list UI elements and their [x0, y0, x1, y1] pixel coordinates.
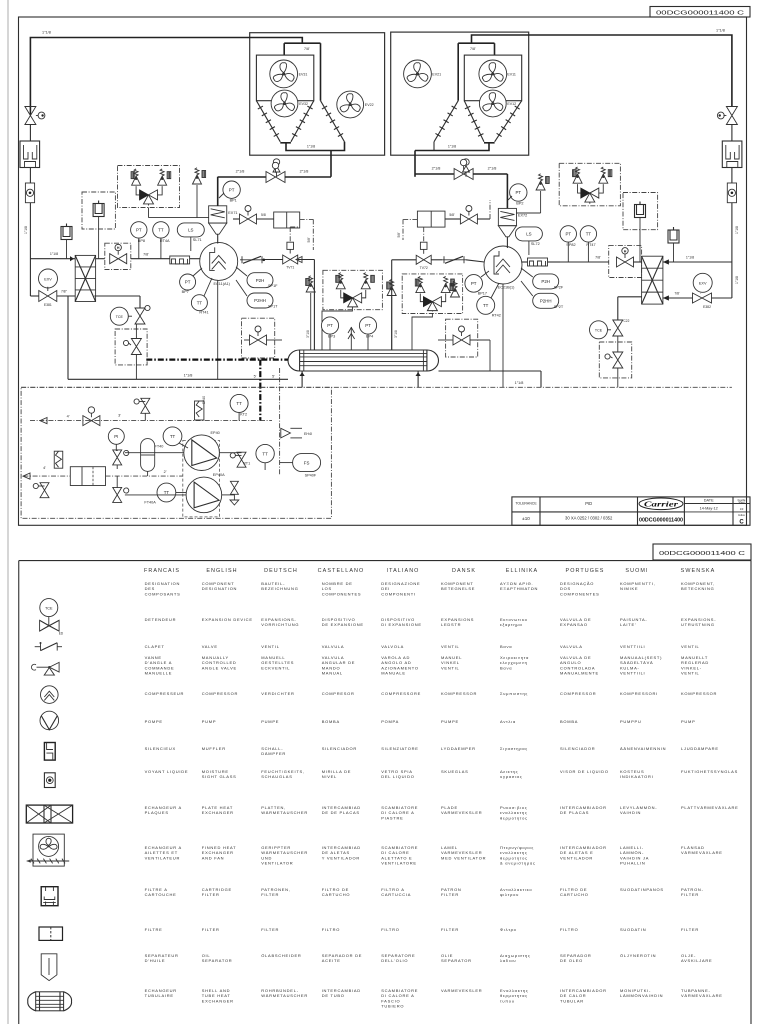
svg-text:SEPARATOR: SEPARATOR	[441, 958, 472, 963]
gauge PI	[108, 428, 124, 444]
icon: plate heat exchanger	[26, 805, 72, 823]
muffler left riser	[20, 141, 40, 168]
svg-text:POMPE: POMPE	[145, 719, 163, 724]
fan EV22	[337, 91, 364, 118]
svg-text:LJUDDÄMPARE: LJUDDÄMPARE	[681, 746, 719, 751]
svg-text:PORTUGES: PORTUGES	[566, 568, 605, 574]
svg-text:BP4: BP4	[366, 335, 373, 339]
svg-text:EV31: EV31	[299, 73, 308, 77]
svg-text:VENTILADOR: VENTILADOR	[560, 855, 593, 860]
PT BP2	[510, 184, 527, 201]
svg-text:H: H	[117, 246, 120, 250]
svg-text:KOMPRESSORI: KOMPRESSORI	[620, 691, 658, 696]
fan EV12	[479, 90, 506, 117]
main drawing frame	[19, 17, 747, 525]
muffler B	[635, 205, 646, 218]
hydronic control valve	[83, 416, 100, 426]
svg-text:COMPRESOR: COMPRESOR	[322, 691, 355, 696]
pipe TCE B feed	[618, 296, 642, 298]
svg-text:DESIGNATION: DESIGNATION	[202, 586, 238, 591]
svg-text:FILTRO: FILTRO	[322, 927, 340, 932]
sight glass right riser	[727, 183, 736, 203]
EXV A circle	[39, 269, 58, 288]
svg-text:EXV: EXV	[699, 282, 707, 286]
TT KT2	[230, 394, 248, 412]
svg-text:1''1/8: 1''1/8	[24, 226, 28, 234]
oval P2HH SP1T	[247, 293, 273, 308]
svg-text:FILTER: FILTER	[441, 927, 459, 932]
svg-text:VALVULA: VALVULA	[322, 644, 345, 649]
svg-text:ÖLJYNEROTIN: ÖLJYNEROTIN	[620, 953, 656, 958]
pipe: comp B drain	[502, 284, 504, 387]
svg-text:Carrier: Carrier	[644, 500, 678, 508]
svg-text:DATE: DATE	[704, 499, 714, 503]
svg-text:4': 4'	[43, 466, 46, 470]
pipe right riser 3	[731, 203, 733, 298]
svg-text:TUBIERO: TUBIERO	[381, 1004, 404, 1009]
LS SL72 oval	[515, 227, 542, 241]
pipe: bottom line long	[21, 386, 732, 388]
suction filter A	[170, 256, 190, 264]
svg-text:CLAPET: CLAPET	[145, 644, 165, 649]
svg-text:LÄMMÖNVAIHDIN: LÄMMÖNVAIHDIN	[620, 993, 663, 998]
TCE B box valve	[613, 352, 623, 368]
TCE B valve	[613, 320, 623, 336]
pipe: relief header A	[148, 208, 150, 218]
hydronic vent valve	[141, 398, 150, 413]
svg-text:BOMBA: BOMBA	[560, 719, 578, 724]
injection sight glass A	[287, 242, 294, 249]
svg-text:VENTILATORE: VENTILATORE	[381, 861, 417, 866]
oval P2HH SP2T	[533, 293, 559, 308]
svg-text:WÄRMETAUSCHER: WÄRMETAUSCHER	[261, 993, 308, 998]
PT BP1	[223, 181, 240, 198]
svg-text:5': 5'	[254, 375, 257, 379]
pipe: liquid line B	[445, 218, 460, 220]
pipe: cond A outlet	[286, 142, 345, 151]
coil A left leg	[256, 101, 280, 142]
svg-text:5': 5'	[272, 375, 275, 379]
pipe: cond A gas riser	[330, 151, 332, 177]
muffler A2	[61, 227, 72, 240]
svg-text:NIVEL: NIVEL	[322, 774, 337, 779]
pipe: injection B dashdot	[403, 218, 417, 220]
svg-text:RT1: RT1	[243, 462, 250, 466]
svg-text:VOYANT LIQUIDE: VOYANT LIQUIDE	[145, 769, 189, 774]
water pipe supply	[146, 359, 288, 361]
svg-text:CARTOUCHE: CARTOUCHE	[145, 892, 177, 897]
pipe to economizer A top	[30, 258, 75, 260]
TT RT4A	[153, 222, 169, 238]
svg-text:ITALIANO: ITALIANO	[387, 568, 420, 574]
svg-text:VENTTIILI: VENTTIILI	[620, 671, 645, 676]
svg-text:00DCG000011400 C: 00DCG000011400 C	[659, 551, 745, 557]
svg-text:PUMP: PUMP	[202, 719, 217, 724]
svg-text:MANUAL: MANUAL	[322, 671, 343, 676]
filter drier A	[274, 212, 300, 228]
svg-text:SKUEGLAS: SKUEGLAS	[441, 769, 469, 774]
muffler B standalone	[668, 230, 679, 243]
svg-text:1''1/8: 1''1/8	[448, 145, 456, 149]
icon: pump	[40, 711, 59, 730]
pipe: injection A dashdot	[300, 218, 314, 220]
svg-text:PID: PID	[585, 501, 592, 506]
carrier logo	[639, 498, 683, 510]
svg-text:COMPRESSOR: COMPRESSOR	[202, 691, 238, 696]
hand valve B	[617, 257, 634, 267]
svg-text:LEDSTR: LEDSTR	[441, 622, 461, 627]
PT BP4	[359, 317, 376, 334]
coil A right leg	[291, 101, 314, 142]
svg-text:PLAQUES: PLAQUES	[145, 810, 169, 815]
pipe left riser 2	[29, 168, 31, 184]
PT BP17	[465, 275, 483, 293]
condenser box B frame	[391, 32, 529, 155]
TT RT42	[477, 296, 495, 314]
svg-text:EV32: EV32	[299, 102, 308, 106]
svg-text:ANGLE VALVE: ANGLE VALVE	[202, 665, 237, 670]
water filter	[70, 467, 105, 486]
hydronic inlet arrow	[40, 418, 47, 424]
sight glass left riser	[25, 183, 34, 203]
svg-text:SEPARATOR: SEPARATOR	[202, 958, 233, 963]
svg-text:30 XA 0252 / 0302 / 0352: 30 XA 0252 / 0302 / 0352	[565, 516, 613, 521]
svg-text:KOMPRESSOR: KOMPRESSOR	[441, 691, 477, 696]
svg-text:1''1/8: 1''1/8	[184, 374, 193, 378]
svg-text:DE EXPANSIONE: DE EXPANSIONE	[322, 622, 364, 627]
flow flag EH4I	[281, 428, 291, 438]
compressor EC21B1	[484, 246, 522, 284]
pipe TCE A	[94, 295, 140, 297]
svg-text:PT: PT	[365, 323, 371, 328]
icon: finned heat exchanger and fan	[33, 834, 64, 866]
coil bank A rect	[256, 55, 313, 101]
svg-text:Indice: Indice	[738, 513, 745, 517]
relief valve B standalone	[536, 181, 545, 190]
service valve left riser	[25, 107, 36, 125]
svg-text:Συμπιεστης: Συμπιεστης	[500, 691, 528, 696]
svg-text:BP7: BP7	[182, 290, 189, 294]
svg-text:E382: E382	[703, 305, 711, 309]
svg-text:Βανα: Βανα	[500, 665, 512, 670]
svg-text:COMPRESSORE: COMPRESSORE	[381, 691, 421, 696]
svg-text:BETECKNING: BETECKNING	[681, 586, 715, 591]
TT FT40A	[157, 483, 176, 502]
coil B left leg	[464, 101, 484, 142]
svg-text:LS: LS	[188, 228, 193, 233]
svg-text:5/8': 5/8'	[449, 213, 455, 217]
TCE A valve	[135, 308, 145, 324]
svg-text:εξαρτημα: εξαρτημα	[500, 622, 522, 627]
svg-text:TOLERANCE: TOLERANCE	[515, 502, 537, 506]
check valve comp B	[442, 259, 466, 261]
pipe: comp A drain	[217, 280, 219, 379]
svg-text:5/8': 5/8'	[397, 232, 401, 237]
svg-text:TT: TT	[170, 434, 176, 439]
svg-text:P2HH: P2HH	[540, 299, 552, 304]
svg-text:KT2: KT2	[240, 412, 247, 416]
svg-text:TV71: TV71	[286, 266, 294, 270]
svg-text:SP2T: SP2T	[554, 305, 564, 309]
injection sight glass B	[420, 242, 427, 249]
discharge valve B	[415, 173, 454, 175]
svg-text:RT4A: RT4A	[160, 239, 170, 243]
svg-text:SP1F: SP1F	[268, 284, 278, 288]
svg-text:EC21B(1): EC21B(1)	[498, 286, 515, 290]
filter drier B	[417, 211, 445, 227]
svg-text:PT: PT	[565, 232, 571, 237]
liquid valve B	[460, 214, 477, 224]
water pipe return	[279, 368, 281, 475]
svg-text:VÄRMEVÄXLARE: VÄRMEVÄXLARE	[681, 850, 723, 855]
svg-text:VAIHDIN: VAIHDIN	[620, 810, 641, 815]
svg-text:POMPA: POMPA	[381, 719, 399, 724]
svg-text:SL72: SL72	[531, 242, 540, 246]
svg-text:BOMBA: BOMBA	[322, 719, 340, 724]
svg-text:VALVULA: VALVULA	[560, 644, 583, 649]
svg-text:SCHAUGLAS: SCHAUGLAS	[261, 774, 292, 779]
svg-text:VENTIL: VENTIL	[681, 671, 700, 676]
hand valve A	[110, 254, 127, 264]
TT RT41	[191, 295, 207, 311]
svg-text:ELLINIKA: ELLINIKA	[506, 568, 538, 574]
svg-text:PUMP: PUMP	[681, 719, 696, 724]
svg-text:2': 2'	[164, 470, 167, 474]
coil B right leg	[495, 101, 522, 142]
EXV B circle	[693, 273, 712, 292]
svg-text:EXCHANGER: EXCHANGER	[202, 810, 234, 815]
svg-text:EX72: EX72	[518, 213, 527, 217]
icon: cartridge filter	[41, 887, 58, 906]
svg-text:3''1/8: 3''1/8	[394, 330, 398, 338]
svg-text:υγρασιας: υγρασιας	[500, 774, 522, 779]
svg-text:AND FAN: AND FAN	[202, 855, 225, 860]
svg-text:7/8': 7/8'	[595, 256, 601, 260]
pipe: bottom line A	[68, 378, 288, 380]
svg-text:SILENCIADOR: SILENCIADOR	[322, 746, 357, 751]
svg-text:FRANCAIS: FRANCAIS	[144, 568, 180, 574]
svg-text:DELL'OLIO: DELL'OLIO	[381, 958, 408, 963]
svg-text:INDIKAATORI: INDIKAATORI	[620, 774, 653, 779]
svg-text:VÄRMEVÄXLARE: VÄRMEVÄXLARE	[681, 993, 723, 998]
pipe: separator A riser	[217, 177, 219, 206]
coil B header bottom	[484, 142, 495, 144]
svg-text:EH4I: EH4I	[304, 432, 312, 436]
svg-text:LS: LS	[526, 232, 531, 237]
svg-text:H: H	[624, 249, 627, 253]
evaporator shell	[300, 350, 427, 371]
svg-text:4': 4'	[67, 415, 70, 419]
pipe: economizer B to compressor	[560, 261, 609, 263]
svg-text:NIMIKE: NIMIKE	[620, 586, 638, 591]
economizer plate HX A	[75, 255, 95, 301]
hydronic valve v2	[113, 487, 122, 502]
svg-text:1''1/8: 1''1/8	[716, 29, 725, 33]
svg-text:COMPRESSEUR: COMPRESSEUR	[145, 691, 185, 696]
svg-text:VENTILATEUR: VENTILATEUR	[145, 855, 181, 860]
svg-text:VENTTIILI: VENTTIILI	[620, 644, 645, 649]
relief valve A standalone	[193, 175, 202, 184]
svg-text:DANSK: DANSK	[452, 568, 476, 574]
svg-text:Y VENTILADOR: Y VENTILADOR	[322, 855, 360, 860]
svg-text:WÄRMETAUSCHER: WÄRMETAUSCHER	[261, 810, 308, 815]
TT FT40	[163, 427, 182, 446]
svg-text:TT: TT	[586, 232, 592, 237]
svg-text:MED VENTILATOR: MED VENTILATOR	[441, 855, 486, 860]
svg-text:7/8': 7/8'	[304, 47, 310, 51]
svg-text:VENTILATOR: VENTILATOR	[261, 861, 293, 866]
expansion tank	[141, 439, 155, 472]
svg-text:ÖLABSCHEIDER: ÖLABSCHEIDER	[261, 953, 301, 958]
svg-text:τυπου: τυπου	[500, 998, 515, 1003]
svg-text:PT: PT	[471, 281, 477, 286]
svg-text:EP40: EP40	[211, 431, 220, 435]
icon: check valve	[35, 646, 41, 648]
svg-text:BP17: BP17	[478, 291, 487, 295]
svg-text:COMPRESSOR: COMPRESSOR	[560, 691, 596, 696]
fan EV31	[270, 60, 298, 88]
svg-text:SP2F: SP2F	[554, 285, 564, 289]
muffler assembly A dashed box	[82, 192, 115, 229]
icon: sight glass	[44, 773, 55, 788]
svg-text:SWENSKA: SWENSKA	[681, 568, 716, 574]
hydronic main line	[23, 475, 70, 477]
pipe relief B down	[412, 313, 432, 350]
pipe: riser B bottom	[731, 386, 733, 388]
pipe: condenser A inlet header	[284, 42, 320, 44]
svg-text:DÄMPFER: DÄMPFER	[261, 751, 286, 756]
svg-text:KOMPRESSOR: KOMPRESSOR	[681, 691, 717, 696]
svg-text:VARMEVEKSLER: VARMEVEKSLER	[441, 810, 482, 815]
svg-text:2''1/8: 2''1/8	[432, 167, 441, 171]
svg-text:SUOMI: SUOMI	[625, 568, 648, 574]
svg-text:PI: PI	[114, 434, 118, 439]
svg-text:TCE: TCE	[45, 607, 53, 611]
compressor EC11A1	[200, 242, 238, 280]
svg-text:AVSKILJARE: AVSKILJARE	[681, 958, 712, 963]
svg-text:TV72: TV72	[420, 266, 428, 270]
svg-text:BP3: BP3	[328, 335, 335, 339]
drawing number box above table	[653, 544, 751, 560]
svg-text:DETENDEUR: DETENDEUR	[145, 617, 177, 622]
legend table frame	[19, 560, 751, 562]
check valve comp A	[240, 259, 264, 261]
check valve drain	[230, 481, 238, 494]
svg-text:FILTER: FILTER	[681, 927, 699, 932]
pipe: liquid line A	[233, 218, 240, 220]
svg-text:TT: TT	[262, 451, 268, 456]
condenser box A frame	[250, 33, 385, 156]
svg-text:BP8: BP8	[138, 239, 145, 243]
FS oval	[293, 454, 321, 472]
TT RT1	[256, 444, 274, 462]
PT SP82	[560, 226, 576, 242]
svg-text:E381: E381	[44, 303, 52, 307]
svg-text:EV12: EV12	[507, 102, 516, 106]
svg-text:PT: PT	[185, 280, 191, 285]
svg-text:SP82: SP82	[566, 243, 575, 247]
pipe: separator B riser	[506, 174, 508, 208]
svg-text:EC11(A1): EC11(A1)	[214, 282, 231, 286]
svg-text:TT: TT	[158, 228, 164, 233]
svg-text:VENTIL: VENTIL	[261, 644, 280, 649]
svg-text:VISOR DE LIQUIDO: VISOR DE LIQUIDO	[560, 769, 609, 774]
fan EV21	[404, 60, 432, 88]
pipe EXV A line	[30, 295, 38, 297]
svg-text:ENGLISH: ENGLISH	[206, 568, 237, 574]
svg-text:SILENZIATORE: SILENZIATORE	[381, 746, 419, 751]
svg-text:UTRUSTNING: UTRUSTNING	[681, 622, 715, 627]
vent valve cond B	[463, 159, 469, 165]
relief flank A	[306, 283, 315, 292]
svg-text:PT: PT	[136, 228, 142, 233]
svg-text:RT47: RT47	[586, 243, 595, 247]
svg-text:COMPONENTES: COMPONENTES	[322, 591, 362, 596]
svg-text:RT41: RT41	[199, 311, 208, 315]
icon: compressor	[41, 686, 59, 704]
svg-text:COMPONENTI: COMPONENTI	[381, 591, 416, 596]
svg-text:TUBULAIRE: TUBULAIRE	[145, 993, 174, 998]
solenoid TV71	[283, 255, 298, 264]
svg-text:DE TUBO: DE TUBO	[322, 993, 345, 998]
svg-text:CARTUCHO: CARTUCHO	[560, 892, 589, 897]
svg-text:EXPANSAO: EXPANSAO	[560, 622, 588, 627]
svg-text:λαδιου: λαδιου	[500, 958, 516, 963]
solenoid TV72	[416, 255, 431, 264]
instrument stems B	[528, 241, 530, 255]
pipe pump connections	[116, 476, 118, 488]
svg-text:PT: PT	[327, 323, 333, 328]
pump EP40A	[186, 477, 222, 513]
icon: TCE expansion device	[40, 599, 58, 617]
fan EV11	[479, 60, 507, 88]
svg-text:Σιγαστηρας: Σιγαστηρας	[500, 746, 528, 751]
svg-text:SL71: SL71	[193, 238, 202, 242]
PT BP3	[321, 317, 338, 334]
svg-text:Φιλτρο: Φιλτρο	[500, 927, 517, 932]
svg-text:FILTER: FILTER	[681, 892, 699, 897]
icon: shell and tube heat exchanger	[36, 992, 64, 1011]
pump group dashed box	[183, 440, 220, 517]
svg-text:FILTER: FILTER	[261, 892, 279, 897]
expansion valve E381	[47, 287, 49, 291]
svg-text:TT: TT	[197, 300, 203, 305]
svg-text:Βανα: Βανα	[500, 644, 512, 649]
svg-text:EXPANSION DEVICE: EXPANSION DEVICE	[202, 617, 253, 622]
discharge valve A	[218, 176, 267, 178]
svg-text:BP2: BP2	[516, 202, 523, 206]
LS SL71 oval	[177, 223, 204, 237]
svg-text:ΕΞΑΡΤΗΜΑΤΩΝ: ΕΞΑΡΤΗΜΑΤΩΝ	[500, 586, 538, 591]
svg-text:1''1/8: 1''1/8	[515, 381, 524, 385]
svg-text:ECKVENTIL: ECKVENTIL	[261, 665, 290, 670]
PT BP8	[131, 222, 147, 238]
svg-text:PT: PT	[515, 190, 521, 195]
svg-text:MANUELLE: MANUELLE	[145, 671, 173, 676]
svg-text:FUKTIGHETSSYNGLAS: FUKTIGHETSSYNGLAS	[681, 769, 738, 774]
relief flank B1	[387, 287, 396, 296]
oil separator EX71	[209, 206, 227, 223]
svg-text:DE DE PLACAS: DE DE PLACAS	[322, 810, 360, 815]
svg-text:FILTER: FILTER	[202, 927, 220, 932]
svg-text:EP40A: EP40A	[213, 473, 225, 477]
svg-text:VENTIL: VENTIL	[441, 644, 460, 649]
evap valve A	[250, 335, 267, 345]
economizer plate HX B	[642, 256, 663, 304]
svg-text:DE OLEO: DE OLEO	[560, 958, 583, 963]
TCE A box valve	[131, 339, 141, 355]
heater EH40	[195, 401, 204, 420]
